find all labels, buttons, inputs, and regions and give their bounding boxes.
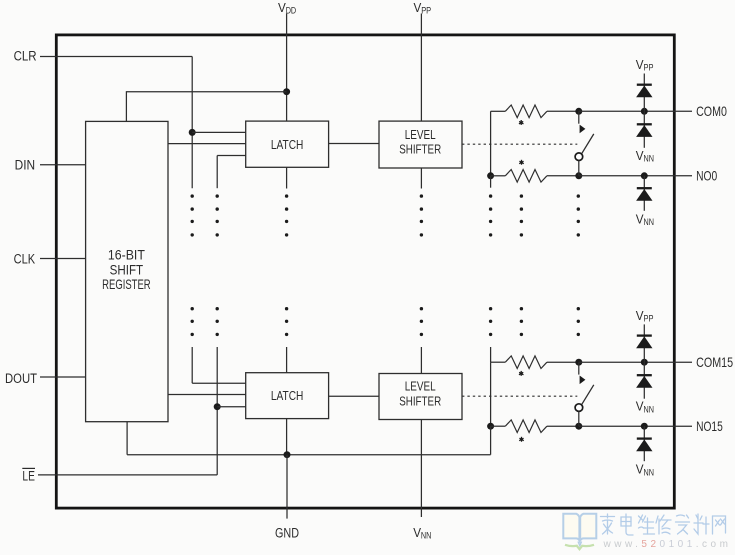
node channel0 NO diode junction dot xyxy=(641,172,648,179)
wire DOUT to shift register xyxy=(40,376,86,378)
wire CLR to top latch input xyxy=(192,131,246,133)
svg-text:NO0: NO0 xyxy=(696,167,717,183)
node ground rail junction dot xyxy=(284,451,291,458)
resistor channel0 COM pullup xyxy=(491,110,506,112)
svg-text:DIN: DIN xyxy=(15,158,35,173)
wire ground rail corner up to channel15 resistors xyxy=(490,426,492,455)
wire CLK to shift register xyxy=(40,258,86,260)
value asterisk for channel0 COM resistor xyxy=(520,120,522,123)
wire LE horizontal xyxy=(38,474,217,476)
value asterisk for channel15 NO resistor xyxy=(521,437,523,440)
pin VNN label below channel15 D3 xyxy=(636,462,654,478)
wire channel15 resistor common vertical xyxy=(490,362,492,426)
svg-text:NN: NN xyxy=(644,153,655,163)
svg-text:SHIFTER: SHIFTER xyxy=(399,142,441,156)
diode channel15 D2 clamp COM to VNN xyxy=(643,362,645,399)
node channel15 NO switch junction dot xyxy=(575,423,582,430)
svg-text:16-BIT: 16-BIT xyxy=(108,247,145,263)
wire bottom latch bottom to ground rail xyxy=(286,419,288,455)
svg-text:PP: PP xyxy=(644,63,654,73)
watermark: green book base xyxy=(565,545,594,549)
wire shift register bottom to ground rail xyxy=(126,422,128,455)
wire channel0 resistor common vertical xyxy=(490,111,492,176)
outer boundary of IC block diagram xyxy=(56,35,674,508)
svg-text:LEVEL: LEVEL xyxy=(405,380,436,394)
pin VNN bottom label xyxy=(413,525,431,541)
wire bottom level shifter to VNN pin xyxy=(420,420,422,518)
svg-text:NN: NN xyxy=(644,404,655,414)
wire VPP to diode channel0 D1 xyxy=(643,74,645,112)
svg-text:DOUT: DOUT xyxy=(5,371,37,386)
svg-text:CLK: CLK xyxy=(14,252,35,267)
pin GND vertical xyxy=(286,455,288,519)
watermark: open book icon xyxy=(563,514,596,541)
wire top latch to level shifter xyxy=(329,143,379,145)
wire top latch bottom stub xyxy=(286,167,288,188)
node channel0 COM switch junction dot xyxy=(575,108,582,115)
switch channel0 pole circle xyxy=(575,153,583,161)
wire channel15 NO line to diode and pin xyxy=(579,425,692,427)
switch channel0 lever (open) xyxy=(582,134,594,154)
node channel0 COM diode junction dot xyxy=(641,108,648,115)
pin VPP label above channel15 protection diode xyxy=(636,308,654,324)
value asterisk for channel0 NO resistor xyxy=(521,160,523,163)
svg-text:LATCH: LATCH xyxy=(271,137,304,152)
wire channel0 resistor common stub below xyxy=(490,176,492,188)
wire channel0 COM line to diodes and pin xyxy=(579,110,692,112)
wire shift register to bottom latch xyxy=(168,394,246,396)
wire channel15 COM line to diodes and pin xyxy=(579,361,692,363)
wire VPP vertical into top level shifter xyxy=(420,14,422,122)
block bottom LEVEL SHIFTER box xyxy=(379,374,462,420)
value asterisk for channel15 COM resistor xyxy=(520,371,522,374)
switch channel0 fixed contact stub and arrowhead xyxy=(578,111,580,123)
svg-text:DD: DD xyxy=(286,6,297,16)
watermark: blue Chinese site-name glyphs xyxy=(601,514,615,534)
node channel15 NO diode junction dot xyxy=(641,423,648,430)
svg-text:www.520101.com: www.520101.com xyxy=(603,539,732,550)
wire bottom level shifter dashed control to switch xyxy=(462,395,577,397)
wire LE net to top latch input xyxy=(217,155,246,157)
svg-text:PP: PP xyxy=(421,6,431,16)
wire ground rail horizontal xyxy=(127,454,491,456)
svg-text:REGISTER: REGISTER xyxy=(102,276,151,292)
wire LE net to bottom latch input xyxy=(217,406,246,408)
block top LEVEL SHIFTER box xyxy=(379,121,462,168)
resistor channel15 COM pullup xyxy=(491,361,506,363)
svg-text:COM0: COM0 xyxy=(696,103,727,119)
node channel15 NO resistor-left junction dot xyxy=(487,423,494,430)
wire channel0 NO line to diode and pin xyxy=(579,175,692,177)
pin VNN label below channel0 D3 xyxy=(636,211,654,227)
svg-text:NN: NN xyxy=(421,531,432,541)
pin VPP label above channel0 protection diode xyxy=(636,57,654,73)
block top LATCH box xyxy=(246,121,329,167)
svg-text:NN: NN xyxy=(644,467,655,477)
diode channel15 D3 clamp NO to VNN xyxy=(643,426,645,461)
svg-text:LE: LE xyxy=(22,468,35,483)
block U1 16-bit shift register box xyxy=(86,121,168,421)
svg-text:GND: GND xyxy=(275,525,299,540)
diode channel0 D3 clamp NO to VNN xyxy=(643,176,645,211)
wire CLR horizontal xyxy=(40,56,192,58)
wire VDD feed to shift register xyxy=(126,91,286,93)
node VDD junction dot xyxy=(283,88,290,95)
resistor channel15 NO pullup xyxy=(491,425,506,427)
node channel0 NO resistor-left junction dot xyxy=(487,172,494,179)
switch channel15 fixed contact stub and arrowhead xyxy=(578,362,580,374)
svg-text:CLR: CLR xyxy=(14,48,37,63)
svg-text:PP: PP xyxy=(644,314,654,324)
wire top level shifter bottom stub xyxy=(420,168,422,189)
svg-text:SHIFT: SHIFT xyxy=(110,261,144,277)
wire VPP to diode channel15 D1 xyxy=(643,324,645,362)
switch channel15 lever (open) xyxy=(582,385,594,405)
wire DIN to shift register xyxy=(40,164,86,166)
wire bottom latch top stub xyxy=(286,347,288,373)
pin VNN label below channel0 D2 xyxy=(636,148,654,164)
svg-text:LATCH: LATCH xyxy=(271,388,304,403)
wire shift register to top latch xyxy=(168,143,246,145)
svg-text:LEVEL: LEVEL xyxy=(405,128,436,142)
node LE to bottom latch dot xyxy=(214,403,221,410)
switch channel15 pole stub to NO line xyxy=(578,412,580,427)
node channel15 COM switch junction dot xyxy=(575,359,582,366)
svg-text:SHIFTER: SHIFTER xyxy=(399,394,441,408)
node channel15 COM diode junction dot xyxy=(641,359,648,366)
resistor channel0 NO pullup xyxy=(491,175,506,177)
svg-text:NO15: NO15 xyxy=(696,418,723,434)
wire LE vertical bus lower xyxy=(216,347,218,475)
wire VDD vertical into top latch xyxy=(286,14,288,122)
wire CLR vertical bus upper xyxy=(191,57,193,189)
wire bottom level shifter top stub xyxy=(420,347,422,374)
diode channel0 D2 clamp COM to VNN xyxy=(643,111,645,148)
switch channel15 pole circle xyxy=(575,404,583,412)
switch channel0 pole stub to NO line xyxy=(578,161,580,176)
wire top level shifter dashed control to switch xyxy=(462,143,577,145)
node channel0 NO switch junction dot xyxy=(575,172,582,179)
svg-text:COM15: COM15 xyxy=(696,354,733,370)
wire channel15 resistor common stub above xyxy=(490,347,492,362)
diode channel0 D1 clamp to VPP xyxy=(637,84,652,86)
pin VNN label below channel15 D2 xyxy=(636,399,654,415)
pin VPP label xyxy=(414,0,432,16)
block bottom LATCH box xyxy=(246,373,329,419)
node CLR to top latch dot xyxy=(189,129,196,136)
repeated-channel ellipsis dots xyxy=(191,194,194,197)
pin VDD label xyxy=(278,0,296,16)
diode channel15 D1 clamp to VPP xyxy=(637,334,652,336)
wire bottom latch to level shifter xyxy=(329,395,379,397)
wire CLR net corner to bottom latch xyxy=(191,347,193,383)
svg-text:NN: NN xyxy=(644,217,655,227)
